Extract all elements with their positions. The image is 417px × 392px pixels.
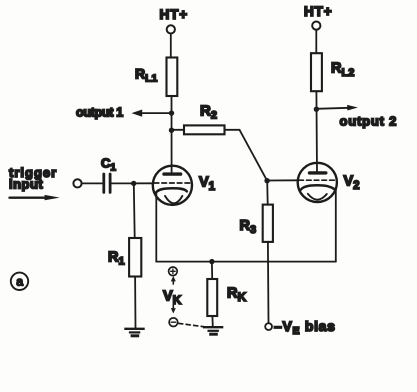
node trigger input terminal [73, 179, 81, 187]
resistor R1 [108, 238, 141, 277]
wire terminal to C1 [82, 182, 102, 184]
triode V1 [153, 166, 216, 205]
wire VK down arrow [171, 305, 176, 314]
wire bus junction to RK [211, 262, 213, 279]
svg-text:output 1: output 1 [76, 105, 123, 119]
wire cathode bus [156, 261, 335, 263]
wire R2 to V2 grid node (horizontal then diagonal) [225, 130, 268, 181]
node RK junction [209, 259, 214, 264]
wire HT+ to RL1 [170, 34, 172, 58]
wire dashed minus to ground [179, 323, 206, 327]
wire trigger arrow [10, 195, 60, 200]
wire VK up arrow [171, 276, 176, 284]
ground (R1) [124, 329, 144, 336]
ground (RK) [203, 327, 223, 334]
wire V1 cathode lead [155, 193, 157, 262]
wire grid node down to R3 [266, 181, 269, 205]
wire RK to ground [211, 316, 213, 327]
wire junction to R2 [172, 129, 185, 131]
resistor RK [207, 279, 246, 316]
wire output 1 tap with arrow [76, 105, 172, 119]
wire RL2 to V2 anode [315, 91, 318, 172]
wire RL1 to V1 anode [171, 96, 173, 172]
wire R1 to ground [134, 277, 136, 329]
svg-text:HT+: HT+ [160, 7, 189, 22]
resistor RL1 [135, 58, 177, 97]
node V2 grid junction [264, 178, 269, 183]
node VK minus probe [169, 318, 178, 327]
label trigger input [9, 165, 57, 192]
node -VE bias terminal [265, 323, 272, 330]
resistor R2 [184, 103, 225, 135]
resistor RL2 [311, 53, 354, 91]
node output 1 junction [169, 110, 174, 115]
wire C1 to V1 grid [112, 182, 153, 184]
resistor R3 [240, 205, 273, 242]
wire junction to V2 grid [267, 179, 298, 181]
svg-text:a: a [16, 275, 23, 289]
node HT+ (left supply terminal) [160, 7, 189, 34]
capacitor C1 [101, 156, 116, 193]
wire junction down to R1 [133, 183, 136, 238]
label circled a [11, 273, 28, 290]
svg-text:output 2: output 2 [340, 114, 398, 129]
node R1 junction [131, 181, 136, 186]
svg-text:HT+: HT+ [304, 4, 333, 19]
svg-text:input: input [9, 177, 43, 192]
node VK plus probe [169, 267, 178, 276]
wire HT+ to RL2 [315, 30, 317, 53]
wire R3 to -VE bias terminal (crosses bus, no dot) [267, 242, 270, 323]
node R2 junction [169, 128, 174, 133]
wire V2 cathode lead [335, 190, 337, 262]
node HT+ (right supply terminal) [304, 4, 333, 30]
node output 2 junction [314, 107, 319, 112]
wire output 2 tap with arrow [316, 105, 397, 129]
triode V2 [298, 163, 360, 202]
